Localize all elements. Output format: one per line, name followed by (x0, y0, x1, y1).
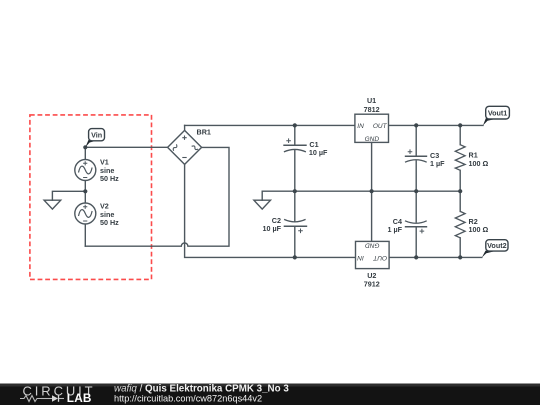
svg-text:7812: 7812 (364, 105, 380, 114)
svg-text:10 µF: 10 µF (309, 148, 328, 157)
svg-text:Vin: Vin (91, 131, 102, 140)
wire bottom rail U2 OUT to Vout2 (389, 256, 482, 258)
svg-text:http://circuitlab.com/cw872n6q: http://circuitlab.com/cw872n6qs44v2 (114, 393, 262, 403)
wire mid ground rail (262, 190, 460, 192)
node C2 bottom (293, 255, 297, 259)
node C1 top (293, 123, 297, 127)
voltage source V1 (75, 158, 119, 184)
svg-text:BR1: BR1 (197, 128, 211, 137)
wire bridge top to rail (184, 125, 186, 130)
capacitor C2 (262, 216, 307, 233)
svg-text:OUT: OUT (373, 123, 388, 130)
svg-text:GND: GND (365, 136, 380, 143)
wire C3 leads (415, 125, 417, 191)
svg-text:Vout2: Vout2 (487, 241, 506, 250)
red dashed highlight box (30, 115, 152, 280)
wire C2 leads (294, 191, 296, 257)
resistor R2 (455, 211, 488, 237)
svg-text:100 Ω: 100 Ω (469, 159, 489, 168)
capacitor C3 (405, 149, 445, 167)
wire C4 leads (415, 191, 417, 257)
wire Vin node to bridge left (85, 146, 167, 148)
node C3-C4 mid (414, 189, 418, 193)
svg-text:IN: IN (357, 254, 364, 261)
wire C1 leads (294, 125, 296, 191)
ground symbol left (44, 200, 61, 209)
wire bridge bottom down and right to U2 IN (185, 164, 356, 257)
bridge rectifier BR1 (168, 128, 211, 165)
svg-text:7912: 7912 (364, 280, 380, 289)
svg-text:Vout1: Vout1 (488, 108, 507, 117)
wire top rail bridge to U1 IN (185, 124, 355, 126)
resistor R1 (455, 145, 488, 171)
svg-text:1 µF: 1 µF (430, 159, 445, 168)
wire V2 bottom down (84, 224, 86, 246)
wire R2 leads (459, 191, 461, 257)
wire top rail U1 OUT to Vout1 (389, 124, 484, 126)
junction dots (83, 123, 462, 259)
regulator U1 7812 (355, 96, 389, 143)
node C3 top (414, 123, 418, 127)
wire U1 GND pin (371, 142, 373, 191)
wire V2 return with hop (85, 147, 229, 246)
node C4 bottom (414, 255, 418, 259)
regulator U2 7912 (flipped) (356, 241, 390, 288)
node Vin junction (83, 145, 87, 149)
svg-text:50 Hz: 50 Hz (100, 174, 119, 183)
voltage source V2 (75, 202, 119, 228)
svg-text:1 µF: 1 µF (387, 225, 402, 234)
node R1 top (458, 123, 462, 127)
svg-text:U1: U1 (367, 96, 376, 105)
wire V1 bottom to V2 top (84, 181, 86, 204)
capacitor C1 (283, 138, 328, 156)
footer bar (0, 384, 540, 405)
svg-text:GND: GND (365, 241, 380, 248)
flag Vin (85, 129, 104, 148)
wire U2 GND pin (371, 191, 373, 241)
ground symbol mid (254, 200, 271, 209)
svg-text:10 µF: 10 µF (262, 224, 281, 233)
svg-text:LAB: LAB (67, 391, 92, 405)
flag Vout2 (482, 240, 508, 258)
wire R1 leads (459, 125, 461, 191)
flag Vout1 (483, 106, 509, 125)
svg-text:IN: IN (357, 123, 364, 130)
capacitor C4 (387, 217, 427, 234)
node C1-C2 mid (293, 189, 297, 193)
node source mid junction (83, 189, 87, 193)
svg-text:OUT: OUT (372, 254, 387, 261)
svg-text:100 Ω: 100 Ω (469, 225, 489, 234)
svg-text:50 Hz: 50 Hz (100, 218, 119, 227)
wire ground stub mid (261, 191, 263, 200)
node U GND rail (370, 189, 374, 193)
wire Vin node to V1 top (84, 147, 86, 159)
node R1-R2 mid (458, 189, 462, 193)
wire ground stub left source (52, 191, 85, 200)
node R2 bottom (458, 255, 462, 259)
